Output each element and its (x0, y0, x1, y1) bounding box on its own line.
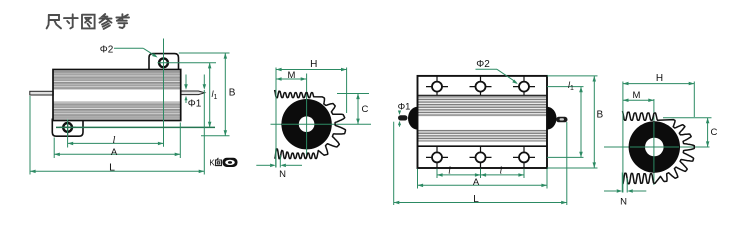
svg-text:H: H (310, 59, 317, 70)
svg-text:C: C (711, 127, 718, 138)
svg-text:l: l (113, 135, 116, 146)
svg-text:Φ1: Φ1 (188, 99, 202, 110)
svg-text:Φ2: Φ2 (476, 59, 490, 70)
svg-text:K: K (209, 159, 215, 168)
svg-text:l: l (448, 165, 451, 176)
svg-text:B: B (597, 110, 604, 121)
svg-text:L: L (473, 194, 479, 205)
svg-text:B: B (229, 88, 236, 99)
svg-text:N: N (620, 197, 627, 208)
svg-text:A: A (111, 147, 118, 158)
svg-text:l: l (500, 165, 503, 176)
svg-text:M: M (633, 90, 641, 101)
svg-text:C: C (362, 104, 369, 115)
svg-text:M: M (288, 70, 296, 81)
svg-text:N: N (279, 169, 286, 180)
svg-text:A: A (473, 177, 480, 188)
svg-text:L: L (109, 162, 115, 174)
svg-text:Φ2: Φ2 (100, 45, 114, 56)
svg-text:H: H (656, 73, 663, 84)
